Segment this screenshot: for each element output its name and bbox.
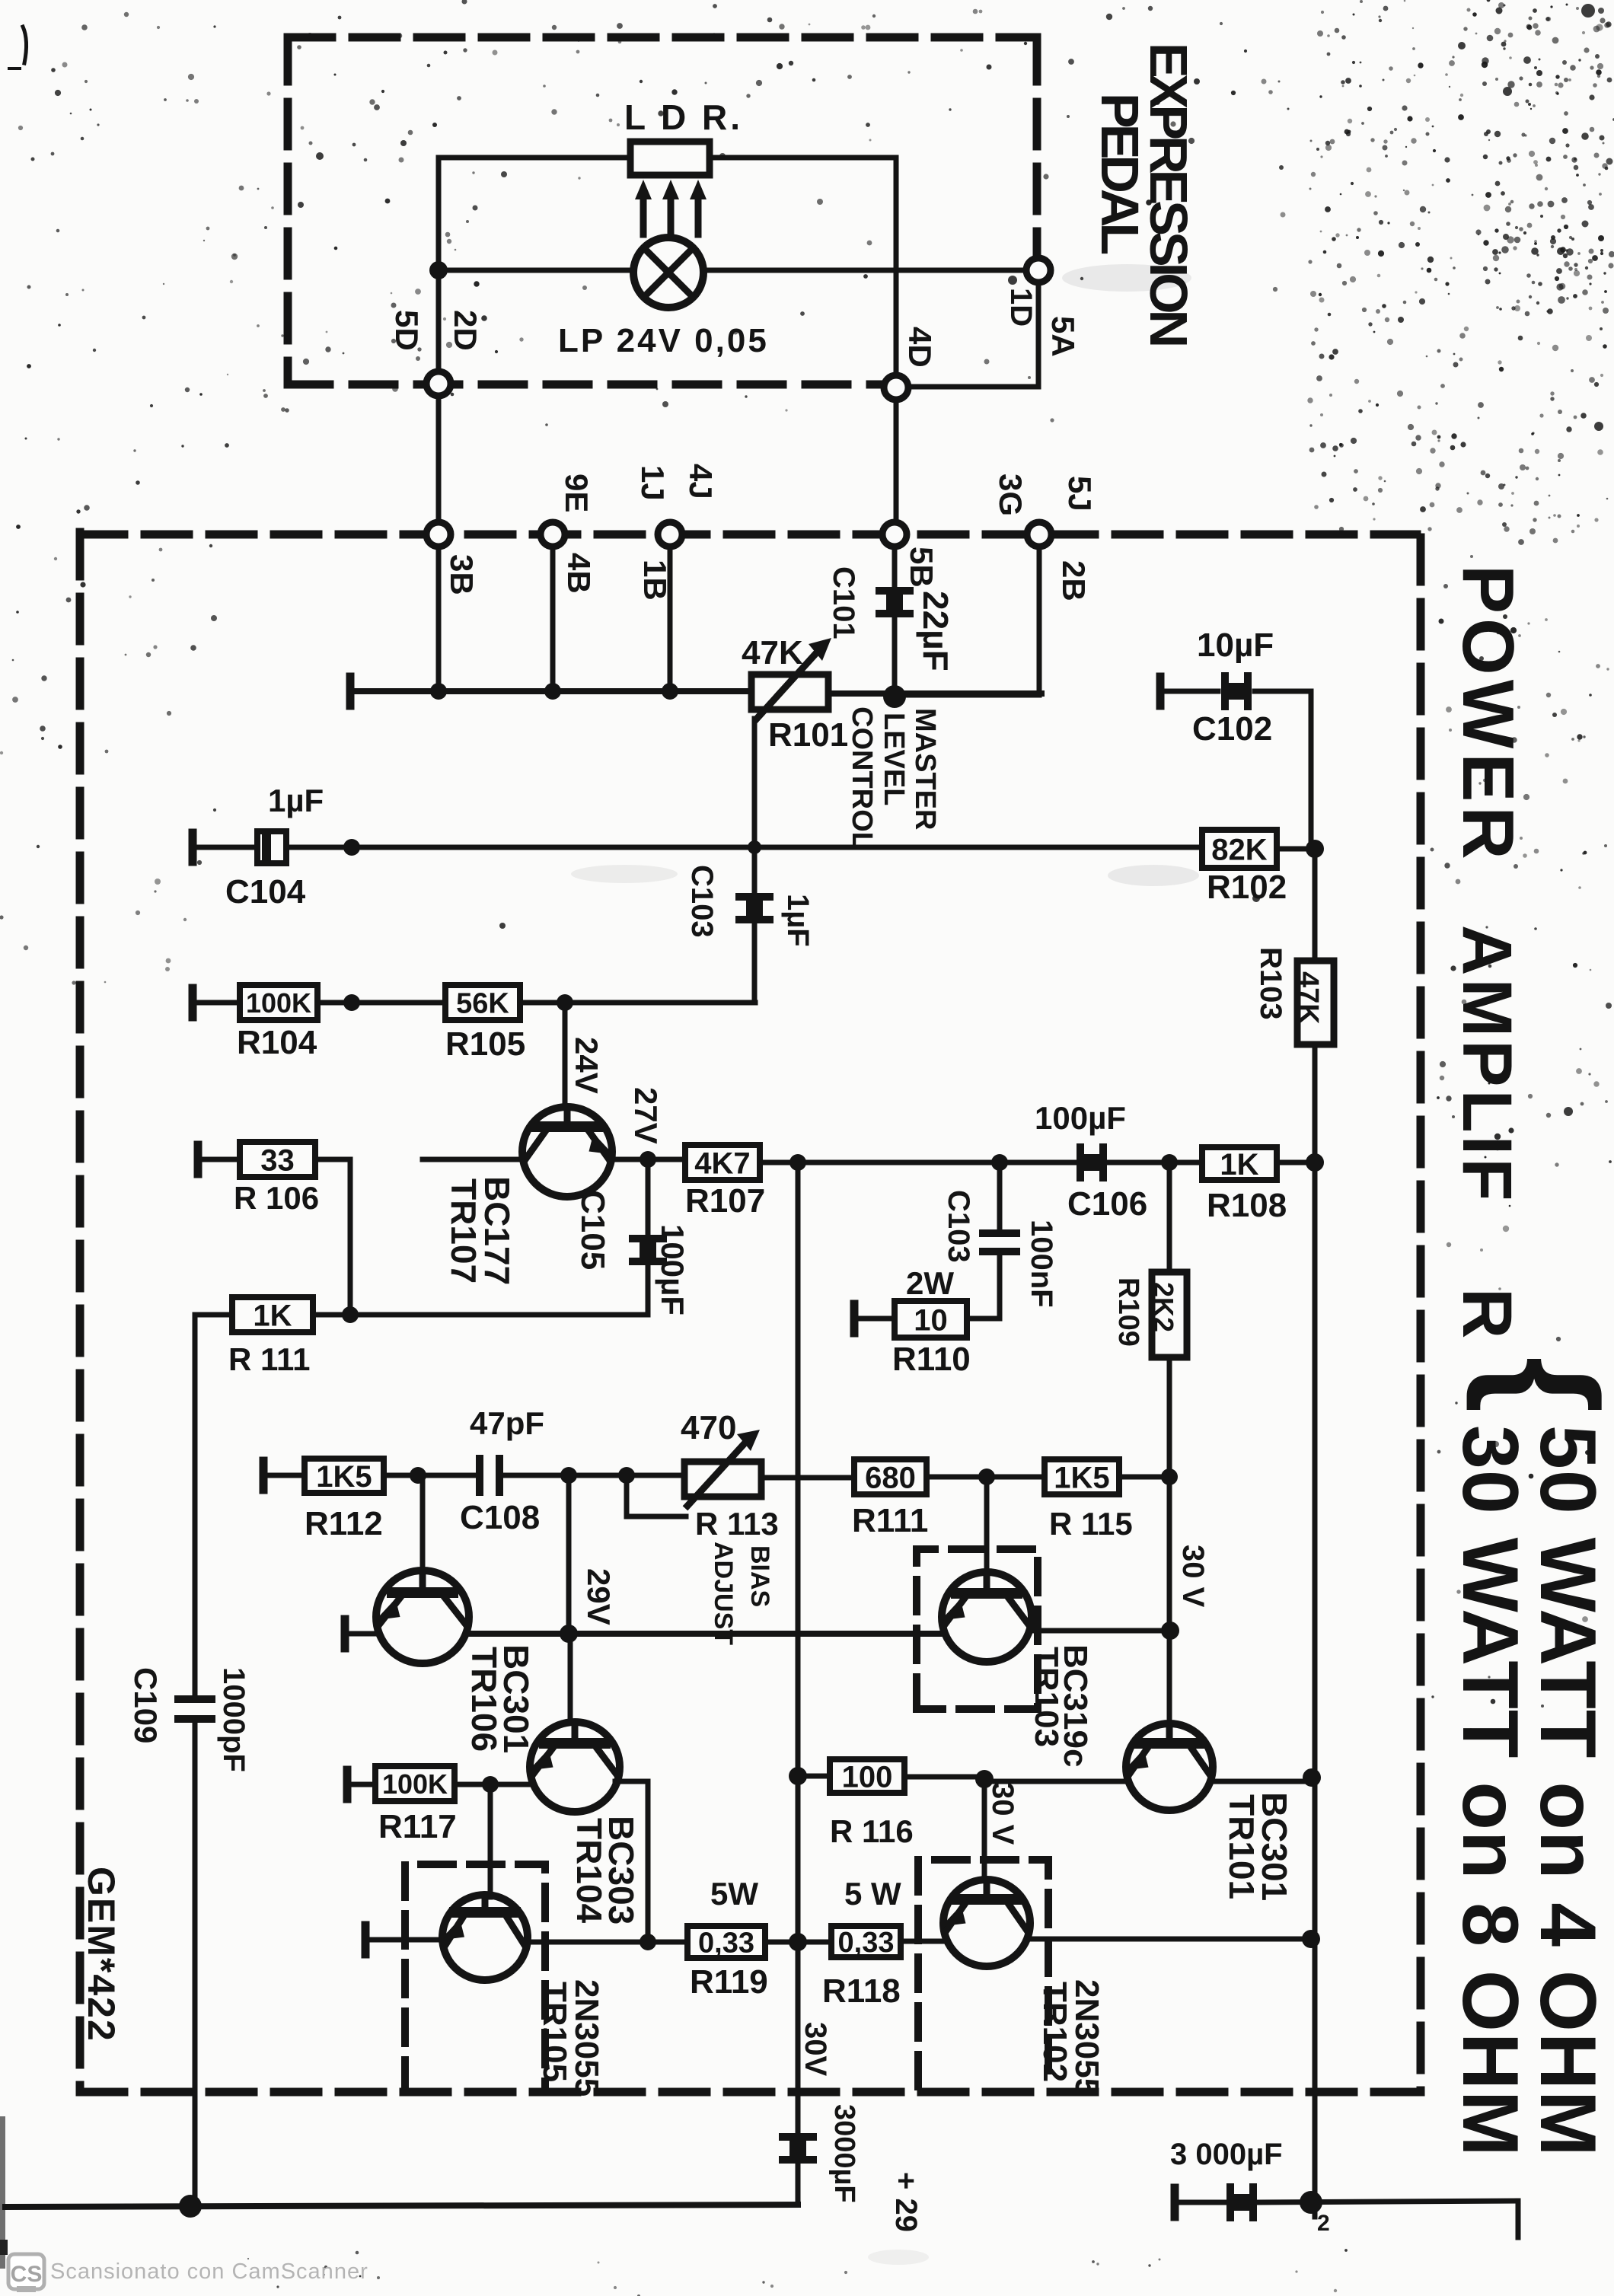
svg-text:R 111: R 111 <box>228 1341 310 1377</box>
svg-text:4J: 4J <box>683 464 719 499</box>
svg-text:C104: C104 <box>225 873 306 910</box>
svg-text:1K5: 1K5 <box>1054 1461 1109 1494</box>
svg-text:33: 33 <box>260 1143 295 1177</box>
svg-text:470: 470 <box>681 1409 736 1446</box>
svg-text:R108: R108 <box>1207 1187 1287 1224</box>
svg-text:1K: 1K <box>253 1299 292 1332</box>
svg-text:R 116: R 116 <box>830 1813 914 1849</box>
svg-text:R: R <box>1448 1288 1526 1338</box>
svg-text:C109: C109 <box>128 1667 164 1743</box>
svg-text:POWER: POWER <box>1447 565 1529 864</box>
svg-text:5 W: 5 W <box>844 1876 901 1912</box>
svg-text:R 115: R 115 <box>1049 1506 1133 1542</box>
svg-text:R111: R111 <box>852 1502 928 1539</box>
svg-text:MASTER: MASTER <box>909 708 941 830</box>
svg-text:R 113: R 113 <box>695 1506 779 1542</box>
svg-text:2D: 2D <box>448 310 483 351</box>
svg-text:27V: 27V <box>628 1087 664 1144</box>
svg-text:R119: R119 <box>690 1963 768 2001</box>
svg-text:C108: C108 <box>460 1499 540 1536</box>
svg-text:C103: C103 <box>942 1190 975 1263</box>
svg-text:C106: C106 <box>1067 1185 1147 1223</box>
svg-text:TR106: TR106 <box>464 1647 504 1752</box>
svg-text:BIAS: BIAS <box>745 1545 774 1607</box>
svg-text:5J: 5J <box>1062 476 1098 512</box>
svg-text:R109: R109 <box>1112 1277 1144 1347</box>
svg-text:100µF: 100µF <box>655 1224 691 1315</box>
svg-text:C105: C105 <box>574 1190 611 1270</box>
svg-text:5B: 5B <box>904 547 939 588</box>
svg-text:4B: 4B <box>561 553 597 594</box>
svg-text:3G: 3G <box>993 474 1029 516</box>
svg-text:R112: R112 <box>305 1505 383 1542</box>
svg-text:1D: 1D <box>1004 288 1038 327</box>
svg-text:R 106: R 106 <box>234 1180 319 1216</box>
svg-text:TR102: TR102 <box>1036 1982 1073 2082</box>
svg-text:30 V: 30 V <box>986 1782 1019 1845</box>
svg-text:TR104: TR104 <box>569 1818 609 1923</box>
svg-text:R110: R110 <box>892 1341 971 1378</box>
svg-text:CONTROL: CONTROL <box>846 706 878 850</box>
svg-text:47K: 47K <box>1292 971 1324 1025</box>
svg-text:10: 10 <box>914 1303 948 1337</box>
svg-text:3000µF: 3000µF <box>828 2104 860 2203</box>
svg-text:LP 24V 0,05: LP 24V 0,05 <box>558 322 769 359</box>
svg-text:ADJUST: ADJUST <box>709 1542 738 1645</box>
svg-text:TR103: TR103 <box>1028 1647 1065 1747</box>
svg-text:30 V: 30 V <box>1176 1545 1210 1608</box>
svg-text:1K5: 1K5 <box>316 1460 372 1494</box>
svg-text:100: 100 <box>842 1760 893 1794</box>
svg-text:4K7: 4K7 <box>694 1146 750 1180</box>
svg-text:LEVEL: LEVEL <box>878 713 910 805</box>
svg-text:100K: 100K <box>382 1768 448 1800</box>
svg-text:5D: 5D <box>389 310 425 351</box>
svg-text:1µF: 1µF <box>268 783 324 818</box>
svg-text:10µF: 10µF <box>1197 627 1274 664</box>
svg-text:4D: 4D <box>902 327 938 368</box>
svg-text:2W: 2W <box>906 1265 954 1301</box>
svg-text:82K: 82K <box>1211 833 1267 866</box>
svg-text:R107: R107 <box>685 1182 765 1220</box>
svg-text:22µF: 22µF <box>916 591 955 671</box>
svg-text:3 000µF: 3 000µF <box>1170 2138 1283 2171</box>
svg-text:1µF: 1µF <box>781 894 815 947</box>
svg-text:680: 680 <box>865 1461 916 1494</box>
svg-text:50 WATT on 4 OHM: 50 WATT on 4 OHM <box>1523 1425 1612 2157</box>
svg-text:R102: R102 <box>1207 869 1287 906</box>
svg-text:R103: R103 <box>1254 947 1287 1020</box>
svg-text:30V: 30V <box>799 2022 832 2076</box>
svg-text:Scansionato con CamScanner: Scansionato con CamScanner <box>50 2259 368 2284</box>
svg-text:5W: 5W <box>710 1876 758 1912</box>
svg-text:PEDAL: PEDAL <box>1090 93 1150 254</box>
svg-text:C103: C103 <box>685 865 719 938</box>
svg-text:TR105: TR105 <box>536 1982 573 2082</box>
svg-text:AMPLIF: AMPLIF <box>1448 925 1526 1204</box>
svg-text:R118: R118 <box>822 1972 901 2010</box>
svg-text:L D R.: L D R. <box>624 97 743 137</box>
svg-text:C101: C101 <box>827 566 860 639</box>
svg-text:CS: CS <box>11 2262 43 2287</box>
svg-text:R117: R117 <box>378 1808 457 1845</box>
svg-text:R105: R105 <box>445 1025 525 1063</box>
svg-text:{: { <box>1466 1357 1614 1413</box>
svg-text:47pF: 47pF <box>470 1405 544 1441</box>
svg-text:TR107: TR107 <box>444 1178 483 1284</box>
svg-text:R101: R101 <box>768 716 848 754</box>
svg-text:TR101: TR101 <box>1222 1794 1262 1899</box>
svg-text:2K2: 2K2 <box>1148 1282 1179 1332</box>
svg-text:9E: 9E <box>559 474 595 512</box>
svg-text:1J: 1J <box>635 465 671 501</box>
svg-text:R104: R104 <box>237 1024 317 1061</box>
svg-text:100nF: 100nF <box>1025 1220 1058 1308</box>
svg-text:GEM*422: GEM*422 <box>80 1867 123 2042</box>
svg-text:2: 2 <box>1317 2211 1330 2236</box>
svg-text:100K: 100K <box>246 987 311 1019</box>
svg-text:3B: 3B <box>444 554 480 595</box>
svg-text:100µF: 100µF <box>1035 1100 1126 1136</box>
svg-text:47K: 47K <box>742 634 803 671</box>
svg-text:2B: 2B <box>1056 560 1092 601</box>
svg-text:1K: 1K <box>1220 1148 1258 1181</box>
svg-text:C102: C102 <box>1192 710 1272 748</box>
svg-text:30 WATT on 8 OHM: 30 WATT on 8 OHM <box>1446 1425 1534 2157</box>
svg-text:+ 29: + 29 <box>889 2172 923 2232</box>
svg-text:24V: 24V <box>569 1037 604 1094</box>
svg-text:0,33: 0,33 <box>698 1928 754 1960</box>
svg-text:0,33: 0,33 <box>838 1927 895 1959</box>
svg-text:1000pF: 1000pF <box>217 1667 250 1772</box>
svg-text:5A: 5A <box>1045 316 1081 357</box>
svg-text:29V: 29V <box>581 1568 617 1625</box>
svg-text:56K: 56K <box>456 988 509 1020</box>
